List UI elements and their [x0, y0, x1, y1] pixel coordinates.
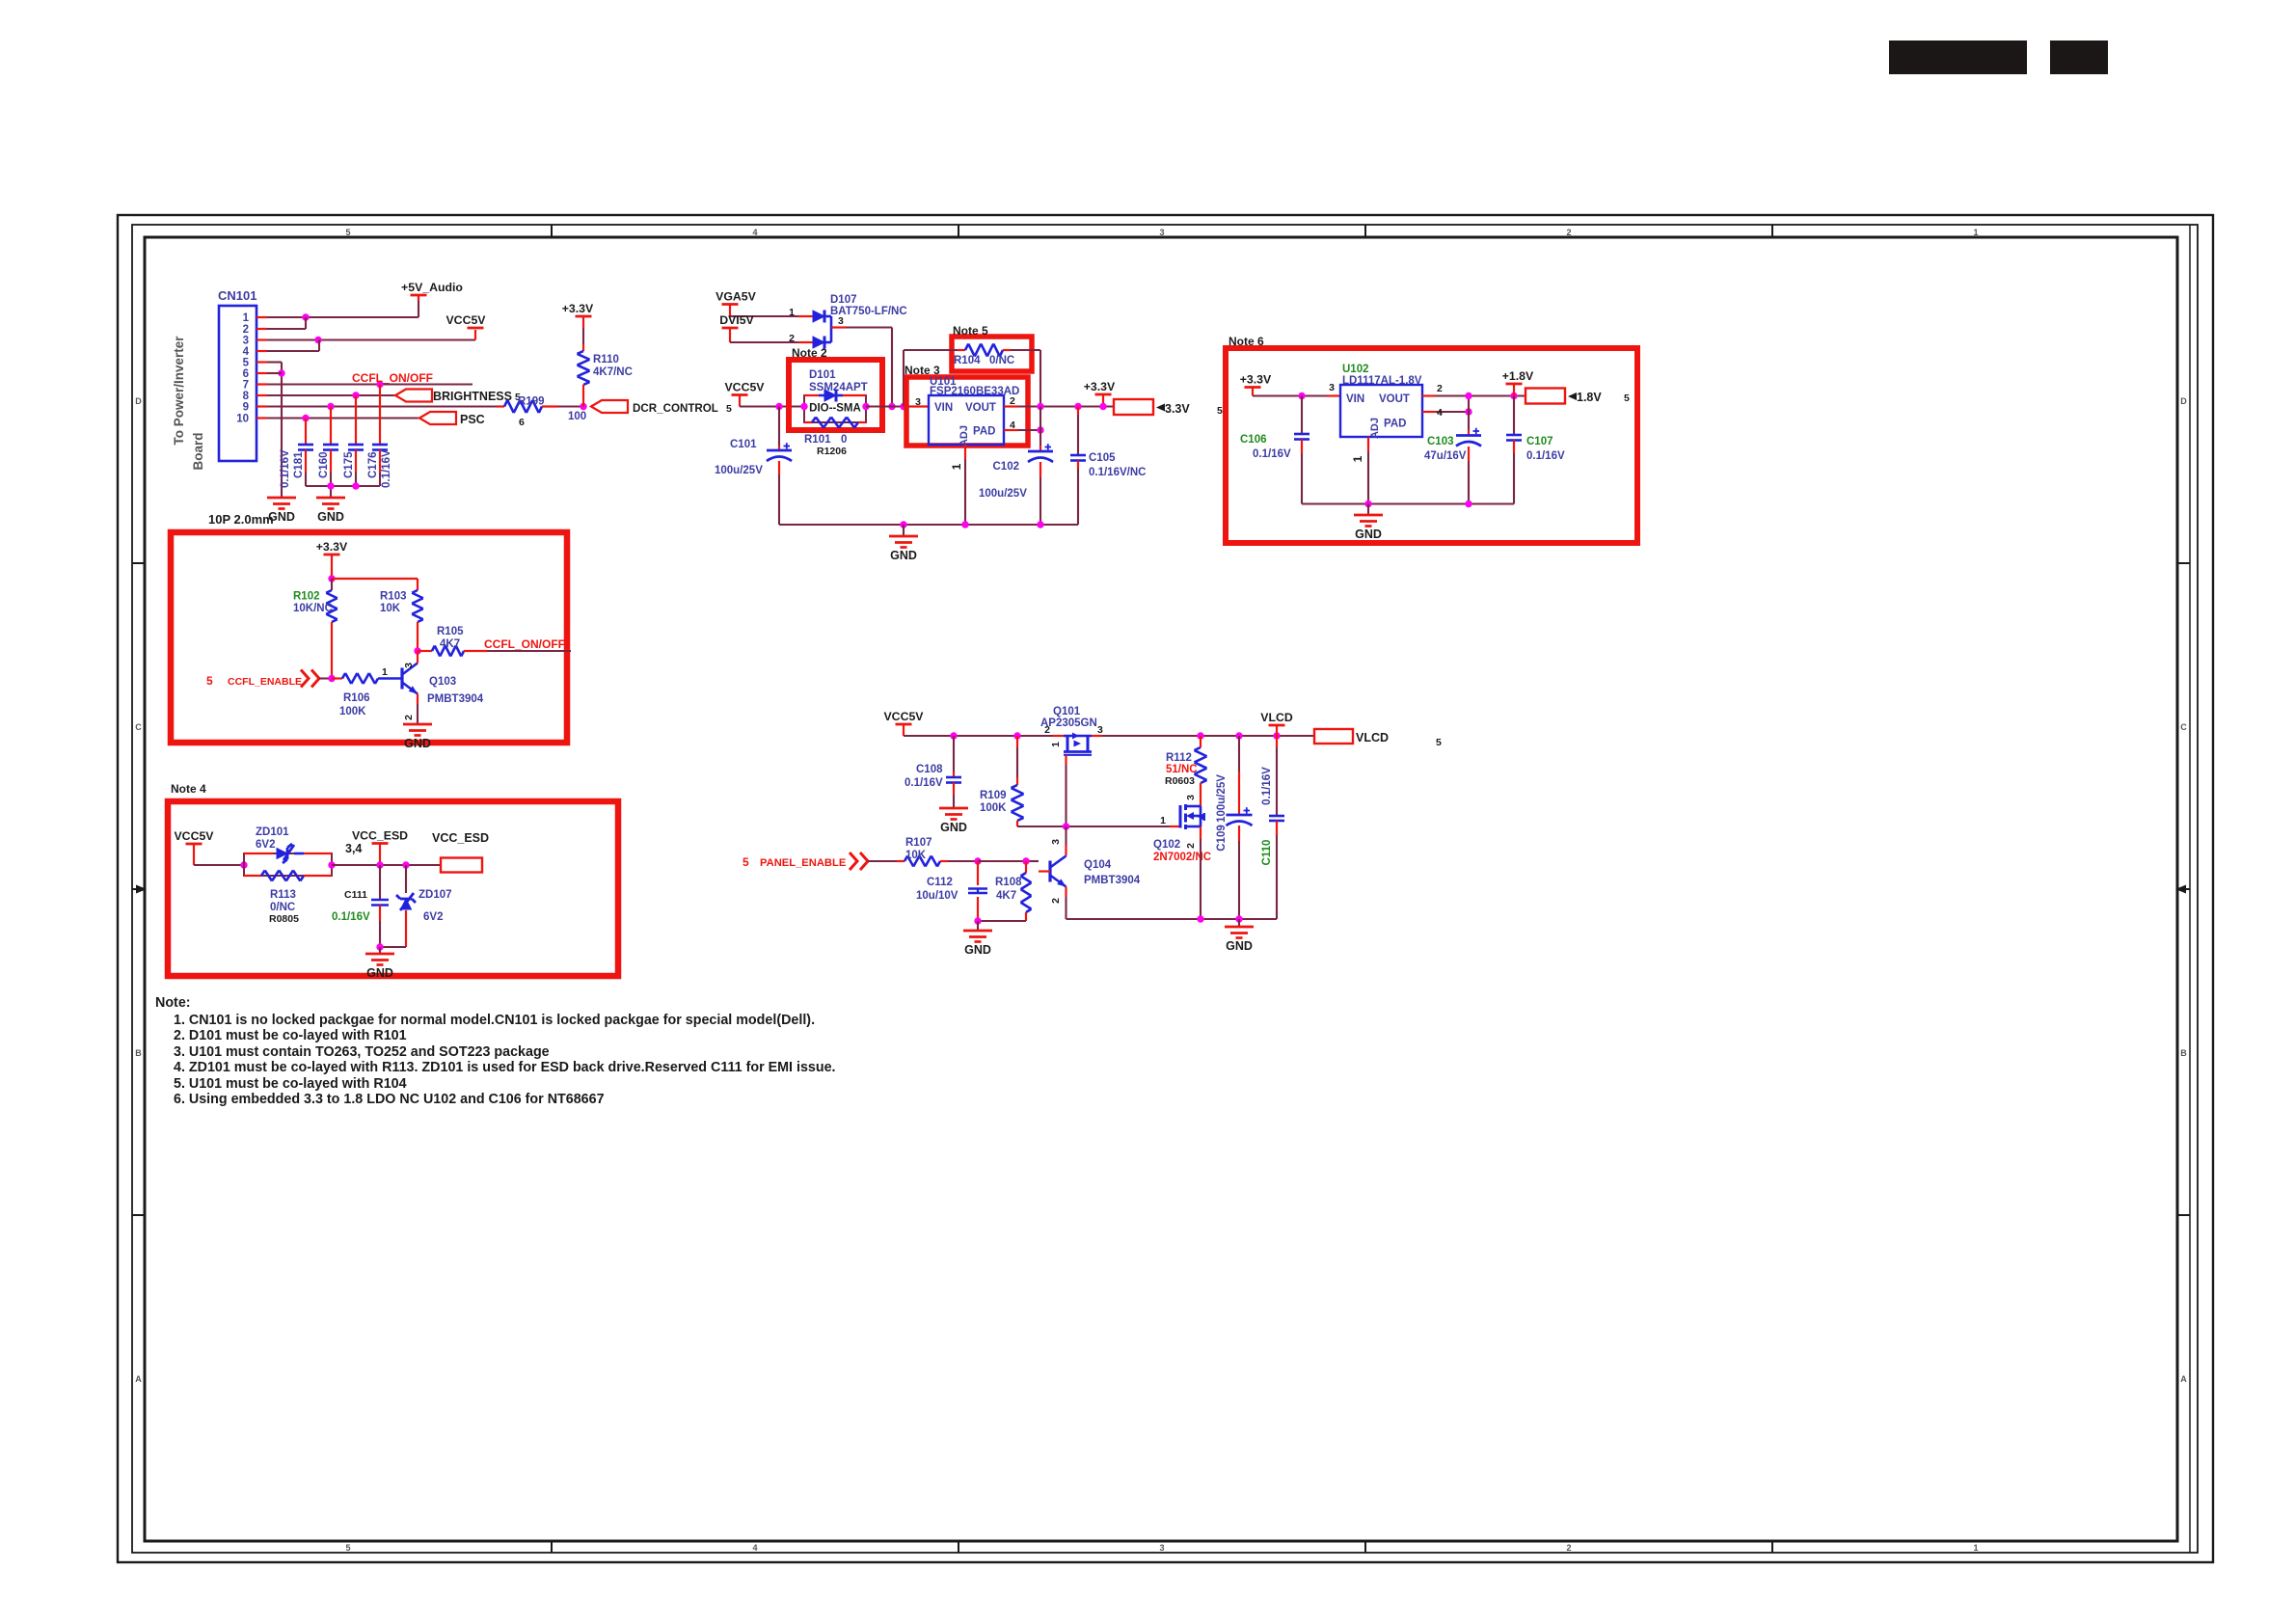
resistor R102: [293, 579, 337, 679]
junction C112: [974, 857, 981, 864]
junction D107 join: [888, 403, 895, 410]
svg-text:C160: C160: [318, 452, 330, 479]
label C106: [1240, 434, 1291, 460]
ground GND (Q103): [403, 724, 432, 750]
label R113: [269, 889, 299, 925]
capacitor C176: [372, 385, 388, 487]
label C111: [332, 889, 370, 923]
svg-text:5. U101 must be co-layed with: 5. U101 must be co-layed with R104: [174, 1076, 407, 1092]
note 2 highlight box: [789, 360, 882, 430]
wire panel enable: [868, 860, 897, 862]
label Note 5: [953, 324, 988, 338]
junction R109: [1013, 732, 1020, 739]
label Q101 pin2: [1044, 724, 1050, 736]
svg-text:3,4: 3,4: [345, 842, 362, 855]
svg-text:3.3V: 3.3V: [1165, 402, 1190, 416]
svg-text:2: 2: [1437, 383, 1443, 394]
wire Q104 emitter: [1065, 887, 1066, 920]
junction R102/R106: [328, 675, 335, 682]
svg-text:LD1117AL-1.8V: LD1117AL-1.8V: [1342, 375, 1422, 387]
svg-text:Q102: Q102: [1153, 839, 1180, 851]
svg-text:C: C: [2180, 722, 2187, 732]
regulator U101: [929, 376, 1019, 447]
svg-text:Note 4: Note 4: [171, 782, 206, 796]
label ZD107: [418, 889, 452, 923]
label CN101 footprint: [208, 512, 274, 527]
wire CN101 pin6: [267, 372, 282, 374]
svg-text:GND: GND: [268, 510, 295, 524]
net label CCFL_ON/OFF: [352, 371, 433, 385]
svg-text:2: 2: [403, 715, 415, 720]
svg-text:Q104: Q104: [1084, 859, 1112, 871]
transistor Q104: [1039, 856, 1066, 887]
junction C105 top: [1074, 403, 1081, 410]
junction R103/R105/Q103: [414, 647, 420, 654]
resistor R107: [897, 837, 978, 867]
svg-text:GND: GND: [890, 549, 917, 562]
svg-text:1: 1: [1973, 1543, 1978, 1553]
svg-text:DVI5V: DVI5V: [719, 313, 754, 327]
svg-text:C176: C176: [367, 452, 379, 479]
wire CN101 pin4: [267, 340, 319, 352]
net outflag VCC_ESD: [432, 831, 489, 873]
svg-text:2: 2: [789, 333, 795, 344]
junction C109: [1235, 732, 1242, 739]
svg-text:C112: C112: [927, 877, 953, 888]
svg-text:2. D101 must be co-layed with: 2. D101 must be co-layed with R101: [174, 1028, 407, 1043]
svg-text:4: 4: [752, 1543, 757, 1553]
label C103: [1424, 436, 1467, 462]
svg-text:51/NC: 51/NC: [1166, 764, 1198, 775]
svg-text:3: 3: [403, 663, 415, 668]
svg-text:2: 2: [243, 324, 249, 336]
wire VCC5V to ZD101: [194, 864, 244, 866]
svg-text:4: 4: [752, 228, 757, 237]
svg-text:R105: R105: [437, 626, 464, 637]
svg-text:2: 2: [1566, 228, 1571, 237]
wire CN101 pin5 down: [267, 363, 282, 498]
junction C175 top: [352, 392, 359, 398]
label C105: [1089, 452, 1146, 478]
svg-text:3: 3: [915, 396, 921, 408]
label C101: [715, 439, 763, 476]
svg-text:VCC5V: VCC5V: [445, 313, 486, 327]
svg-text:ZD101: ZD101: [256, 826, 289, 838]
svg-text:ADJ: ADJ: [1369, 418, 1381, 439]
junction gnd U102 pin1: [1364, 501, 1371, 507]
label Q104 pin2: [1050, 898, 1062, 904]
svg-text:GND: GND: [1355, 528, 1382, 541]
svg-text:A: A: [135, 1374, 142, 1384]
wire gate node: [1017, 826, 1170, 827]
label C160: [318, 452, 330, 479]
svg-text:VLCD: VLCD: [1260, 711, 1293, 724]
svg-text:VOUT: VOUT: [965, 402, 996, 414]
capacitor C103: [1456, 412, 1481, 504]
junction +3.3V stem: [1099, 403, 1106, 410]
capacitor C109: [1227, 736, 1253, 919]
svg-text:+3.3V: +3.3V: [1084, 380, 1116, 393]
svg-text:DCR_CONTROL: DCR_CONTROL: [633, 402, 718, 415]
svg-text:D107: D107: [830, 294, 857, 306]
wire CN101 pin3 to VCC5V: [267, 330, 475, 340]
svg-text:CCFL_ON/OFF: CCFL_ON/OFF: [484, 637, 565, 651]
wire CN101 pin9: [267, 405, 497, 407]
svg-text:PMBT3904: PMBT3904: [1084, 875, 1141, 886]
ground GND (VLCD): [1225, 919, 1254, 953]
wire Q102 source: [1200, 826, 1201, 919]
svg-text:R112: R112: [1166, 752, 1192, 764]
svg-text:VGA5V: VGA5V: [715, 290, 756, 304]
svg-text:100K: 100K: [339, 706, 366, 717]
net outflag VLCD: [1314, 729, 1442, 748]
svg-text:+3.3V: +3.3V: [316, 540, 348, 554]
svg-text:C107: C107: [1526, 436, 1553, 447]
junction D101 right: [862, 403, 869, 410]
svg-text:5: 5: [726, 403, 732, 415]
ground GND (U101): [889, 525, 918, 562]
svg-text:GND: GND: [940, 821, 967, 834]
svg-text:PMBT3904: PMBT3904: [427, 693, 484, 705]
svg-text:R110: R110: [593, 354, 619, 365]
svg-text:2: 2: [1010, 395, 1015, 407]
svg-text:47u/16V: 47u/16V: [1424, 450, 1467, 462]
svg-text:GND: GND: [317, 510, 344, 524]
svg-text:1: 1: [950, 463, 963, 470]
label Note 2: [792, 346, 827, 360]
svg-text:2N7002/NC: 2N7002/NC: [1153, 852, 1211, 863]
svg-text:C109: C109: [1216, 825, 1228, 852]
svg-text:VCC5V: VCC5V: [174, 829, 214, 843]
svg-text:2: 2: [1185, 843, 1197, 849]
junction C101: [775, 403, 782, 410]
zener ZD101 footprint box: [244, 853, 332, 876]
svg-text:BRIGHTNESS: BRIGHTNESS: [433, 390, 512, 403]
svg-text:7: 7: [243, 380, 249, 392]
junction ZD107 top: [402, 861, 409, 868]
resistor R105: [418, 626, 571, 657]
resistor R108: [995, 861, 1032, 921]
svg-text:1: 1: [1973, 228, 1978, 237]
svg-text:2: 2: [1050, 898, 1062, 904]
wire CN101 pin2: [267, 317, 306, 329]
svg-text:3: 3: [1159, 228, 1164, 237]
junction ZD101 left: [240, 861, 247, 868]
label D101: [809, 369, 868, 393]
wire D107 cathode join: [831, 315, 846, 342]
power flag +3.3V (U101 out): [1084, 380, 1116, 407]
label R101: [804, 434, 847, 446]
label C176: [367, 452, 379, 479]
capacitor C181: [298, 419, 313, 487]
capacitor C106: [1294, 396, 1309, 504]
wire base node: [978, 860, 1039, 862]
label C181: [293, 451, 305, 478]
junction C181 top: [302, 415, 309, 421]
wire CN101 pin8: [267, 394, 395, 396]
svg-text:R102: R102: [293, 591, 320, 603]
wire vcc rail to Q101: [904, 735, 1053, 737]
transistor Q101: [1053, 733, 1102, 755]
net label CCFL_ON/OFF (box): [484, 637, 565, 651]
junction pin6: [278, 369, 284, 376]
svg-text:0.1/16V: 0.1/16V: [332, 911, 370, 923]
junction gnd C102: [1037, 521, 1043, 528]
label R104: [954, 355, 1014, 366]
svg-text:CN101: CN101: [218, 288, 256, 303]
svg-text:B: B: [2180, 1048, 2187, 1058]
capacitor C105: [1070, 407, 1086, 526]
title block redaction box 1: [1889, 41, 2027, 74]
svg-text:1: 1: [243, 312, 250, 324]
wire CN101 pin1 to +5V_Audio: [267, 297, 418, 317]
svg-text:3: 3: [243, 336, 249, 347]
svg-text:FSP2160BE33AD: FSP2160BE33AD: [930, 386, 1019, 397]
svg-text:1: 1: [1050, 742, 1062, 747]
label C175: [343, 451, 355, 478]
svg-text:10K: 10K: [905, 850, 927, 861]
net outflag +1.8V: [1525, 389, 1630, 405]
junction gnd C104: [900, 521, 906, 528]
label Q102: [1153, 839, 1211, 863]
note 5 highlight box: [952, 337, 1032, 371]
net flag DCR_CONTROL: [591, 400, 732, 415]
label Q102 pin1: [1160, 815, 1166, 826]
capacitor C108: [946, 736, 961, 807]
capacitor C101: [767, 407, 792, 526]
wire CN101 pin7 CCFL_ON/OFF: [267, 383, 472, 385]
svg-text:R106: R106: [343, 692, 370, 704]
junction C102 top: [1037, 403, 1043, 410]
junction gate/Q104: [1063, 823, 1069, 829]
svg-text:R199: R199: [518, 396, 545, 408]
svg-text:3: 3: [1050, 839, 1062, 845]
svg-text:+3.3V: +3.3V: [1240, 373, 1272, 387]
junction C106 top: [1298, 392, 1305, 399]
svg-text:R109: R109: [980, 790, 1007, 801]
svg-text:0.1/16V: 0.1/16V: [381, 449, 392, 488]
power flag VCC5V (CN101): [445, 313, 486, 328]
junction C108: [950, 732, 957, 739]
svg-text:1: 1: [382, 666, 388, 678]
power flag +1.8V (U102): [1502, 369, 1534, 396]
power flag VGA5V: [715, 290, 756, 317]
connector CN101: [218, 288, 267, 461]
ground GND (caps): [316, 498, 345, 524]
svg-text:DIO--SMA: DIO--SMA: [809, 403, 861, 415]
wire VCC5V rail: [740, 405, 804, 407]
ground GND (C108): [939, 808, 968, 834]
junction vout/C103: [1465, 392, 1471, 399]
svg-text:2: 2: [1566, 1543, 1571, 1553]
junction gnd pin1: [961, 521, 968, 528]
svg-text:Board: Board: [191, 432, 205, 470]
resistor R104 bypass wire: [904, 344, 1040, 407]
capacitor C175: [348, 395, 364, 486]
zener ZD101: [244, 844, 332, 863]
power flag VCC_ESD: [345, 829, 408, 866]
label C176 value: [381, 449, 392, 488]
wire ZD101 to VCC_ESD: [332, 864, 441, 866]
svg-text:Note 6: Note 6: [1228, 335, 1264, 348]
svg-text:C106: C106: [1240, 434, 1267, 446]
svg-text:0.1/16V: 0.1/16V: [1253, 448, 1291, 460]
svg-text:R103: R103: [380, 591, 407, 603]
capacitor C102: [1028, 407, 1053, 526]
svg-text:3: 3: [1097, 724, 1103, 736]
diode D101: [804, 390, 866, 402]
label Note 3: [904, 364, 940, 377]
resistor R101: [804, 418, 866, 428]
resistor R113: [244, 871, 332, 881]
junction gnd C112: [974, 917, 981, 924]
svg-text:R107: R107: [905, 837, 932, 849]
wire U101 pin4: [1004, 420, 1040, 431]
label C108: [904, 764, 943, 789]
svg-text:R113: R113: [270, 889, 296, 901]
transistor Q103: [402, 663, 484, 720]
svg-text:To Power/Inverter: To Power/Inverter: [172, 336, 186, 446]
svg-text:0.1/16V: 0.1/16V: [280, 449, 291, 488]
junction gnd bus 1: [327, 482, 334, 489]
svg-text:6V2: 6V2: [423, 911, 443, 923]
junction U102 adj: [1465, 408, 1471, 415]
svg-text:B: B: [135, 1048, 142, 1058]
svg-text:VIN: VIN: [934, 402, 953, 414]
svg-text:0/NC: 0/NC: [270, 902, 295, 913]
junction ZD101 right: [328, 861, 335, 868]
ground GND (U102): [1354, 504, 1383, 542]
diode D101 footprint box: [804, 395, 866, 422]
junction pin1/pin2: [302, 313, 309, 320]
label C112: [916, 877, 958, 902]
svg-text:GND: GND: [1226, 939, 1253, 953]
svg-text:PAD: PAD: [973, 426, 995, 438]
svg-text:1. CN101 is no locked packgae: 1. CN101 is no locked packgae for normal…: [174, 1013, 815, 1028]
frame zone ticks: [132, 225, 2190, 1553]
wire +3.3V to R103: [332, 579, 418, 590]
capacitor C111: [371, 865, 389, 947]
svg-text:Note 2: Note 2: [792, 346, 827, 360]
label Q101: [1040, 706, 1097, 729]
power flag DVI5V: [719, 313, 754, 342]
ground bus VLCD: [1066, 918, 1278, 920]
wire cap ground bus: [306, 486, 380, 497]
svg-text:6: 6: [243, 368, 249, 380]
svg-text:Note 3: Note 3: [904, 364, 940, 377]
svg-text:VLCD: VLCD: [1356, 731, 1389, 744]
svg-text:10P 2.0mm: 10P 2.0mm: [208, 512, 274, 527]
diode D107 A: [813, 311, 831, 323]
svg-text:VCC_ESD: VCC_ESD: [352, 829, 408, 843]
wire VGA5V to D107 pin1: [730, 307, 813, 318]
svg-text:10: 10: [236, 414, 249, 425]
wire Q101 drain to VLCD: [1102, 735, 1314, 737]
svg-text:3: 3: [1159, 1543, 1164, 1553]
power flag VLCD: [1260, 711, 1293, 736]
svg-text:0.1/16V: 0.1/16V: [1261, 767, 1273, 805]
svg-text:2: 2: [1044, 724, 1050, 736]
net outflag +3.3V: [1114, 399, 1223, 417]
junction C111 top: [376, 861, 383, 868]
wire U102 pin2: [1422, 383, 1525, 396]
junction gnd C103: [1465, 501, 1471, 507]
ground bus U102: [1302, 502, 1514, 504]
svg-text:4K7: 4K7: [440, 638, 460, 650]
wire CN101 pin10: [267, 417, 419, 419]
svg-text:1: 1: [1351, 455, 1364, 462]
svg-text:100u/25V: 100u/25V: [1216, 774, 1228, 823]
resistor R106: [332, 666, 402, 717]
wire CCFL_ENABLE: [319, 677, 332, 679]
wire Q101 gate: [1050, 742, 1066, 826]
svg-text:A: A: [2180, 1374, 2187, 1384]
svg-text:Q103: Q103: [429, 676, 456, 688]
wire Q104 collector: [1050, 826, 1066, 856]
svg-text:4: 4: [1437, 407, 1443, 419]
svg-text:5: 5: [345, 1543, 350, 1553]
svg-text:R108: R108: [995, 877, 1022, 888]
junction DCR/R110: [580, 403, 586, 410]
svg-text:5: 5: [742, 855, 749, 869]
label C109: [1216, 774, 1228, 852]
svg-text:C175: C175: [343, 451, 355, 478]
svg-text:4. ZD101 must be co-layed with: 4. ZD101 must be co-layed with R113. ZD1…: [174, 1060, 836, 1075]
svg-text:R104: R104: [954, 355, 981, 366]
label C102: [979, 461, 1027, 500]
svg-text:C: C: [135, 722, 142, 732]
wire D107 pin3 to rail: [846, 328, 892, 407]
svg-text:0.1/16V: 0.1/16V: [1526, 450, 1565, 462]
title block redaction box 2: [2050, 41, 2108, 74]
wire D101 to U101: [866, 405, 929, 407]
capacitor C107: [1506, 396, 1522, 504]
wire vout to adj: [1468, 396, 1470, 413]
net flag PSC: [419, 412, 485, 426]
svg-text:5: 5: [1217, 405, 1223, 417]
resistor R109: [980, 736, 1024, 826]
svg-text:100K: 100K: [980, 802, 1007, 814]
svg-text:ADJ: ADJ: [958, 425, 970, 447]
svg-text:R0603: R0603: [1165, 775, 1195, 787]
label C181 value: [280, 449, 291, 488]
svg-text:100u/25V: 100u/25V: [715, 465, 763, 476]
junction pin4/C102: [1037, 426, 1043, 433]
svg-text:10u/10V: 10u/10V: [916, 890, 958, 902]
svg-text:VIN: VIN: [1346, 393, 1364, 405]
resistor R103: [380, 590, 423, 651]
capacitor C110: [1269, 736, 1284, 919]
svg-text:PAD: PAD: [1384, 419, 1406, 430]
wire U102 pin1: [1351, 437, 1368, 504]
svg-text:GND: GND: [964, 943, 991, 957]
resistor R112: [1165, 736, 1207, 806]
svg-text:D: D: [135, 396, 142, 406]
label To Power/Inverter Board: [172, 336, 205, 471]
transistor Q102: [1170, 804, 1204, 829]
power flag +3.3V (U102): [1240, 373, 1272, 396]
svg-text:GND: GND: [366, 966, 393, 980]
svg-text:3. U101 must contain TO263, TO: 3. U101 must contain TO263, TO252 and SO…: [174, 1044, 550, 1060]
wire R108 gnd: [978, 920, 1026, 922]
wire U101 pin1: [950, 445, 965, 525]
junction C107 top: [1510, 392, 1517, 399]
frame zone labels: [135, 228, 2187, 1553]
svg-text:3: 3: [838, 315, 844, 327]
svg-text:C110: C110: [1261, 840, 1273, 866]
note 6 highlight box: [1226, 348, 1637, 543]
ccfl highlight box: [171, 532, 567, 743]
